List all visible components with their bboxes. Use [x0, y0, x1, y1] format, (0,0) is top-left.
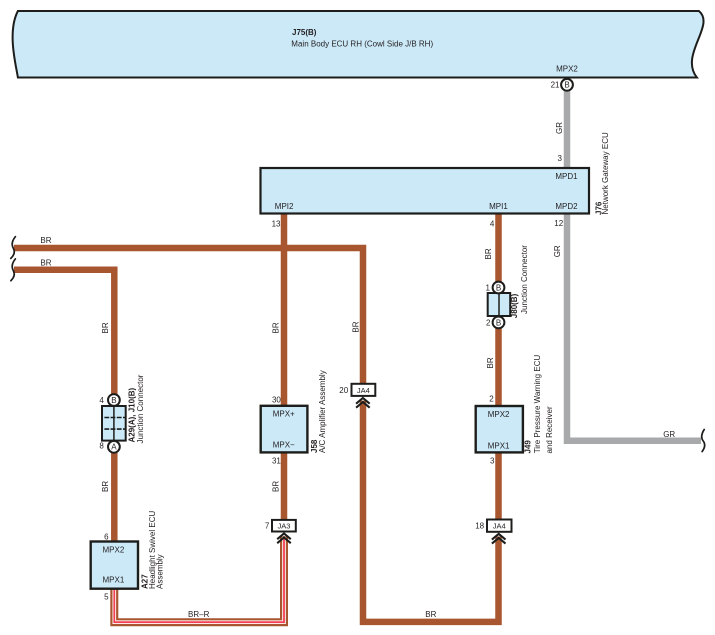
svg-text:4: 4	[490, 220, 495, 229]
svg-text:3: 3	[490, 457, 495, 466]
svg-text:6: 6	[104, 533, 109, 542]
svg-text:BR: BR	[40, 236, 51, 245]
svg-text:J49: J49	[524, 440, 533, 454]
svg-text:MPD2: MPD2	[555, 202, 578, 211]
svg-text:MPI2: MPI2	[275, 202, 294, 211]
svg-text:B: B	[111, 396, 116, 405]
svg-text:GR: GR	[553, 245, 562, 257]
svg-text:B: B	[496, 284, 501, 293]
svg-text:1: 1	[486, 284, 491, 293]
svg-text:MPX1: MPX1	[488, 442, 510, 451]
svg-text:JA4: JA4	[493, 522, 506, 531]
svg-text:A: A	[111, 443, 117, 452]
svg-text:B: B	[564, 81, 569, 90]
svg-text:BR–R: BR–R	[188, 610, 210, 619]
svg-text:MPX1: MPX1	[103, 576, 125, 585]
svg-text:BR: BR	[352, 321, 361, 332]
svg-text:MPX2: MPX2	[488, 410, 510, 419]
svg-text:MPX2: MPX2	[556, 64, 578, 73]
svg-text:MPX+: MPX+	[273, 410, 295, 419]
svg-text:BR: BR	[101, 322, 110, 333]
svg-text:A/C Amplifier Assembly: A/C Amplifier Assembly	[318, 370, 327, 453]
svg-text:GR: GR	[663, 430, 675, 439]
svg-text:Assembly: Assembly	[156, 554, 165, 589]
svg-text:GR: GR	[555, 122, 564, 134]
svg-text:20: 20	[339, 386, 348, 395]
svg-text:and Receiver: and Receiver	[545, 406, 554, 453]
svg-text:B: B	[496, 318, 501, 327]
svg-text:BR: BR	[425, 610, 436, 619]
svg-text:BR: BR	[101, 481, 110, 492]
svg-text:18: 18	[475, 522, 484, 531]
svg-text:J75(B): J75(B)	[292, 28, 317, 37]
svg-text:13: 13	[272, 219, 281, 228]
svg-text:Junction Connector: Junction Connector	[520, 245, 529, 314]
svg-text:JA3: JA3	[278, 522, 291, 531]
svg-text:MPX2: MPX2	[103, 546, 125, 555]
svg-text:Junction Connector: Junction Connector	[136, 374, 145, 443]
svg-text:J80(B): J80(B)	[510, 293, 519, 318]
svg-text:5: 5	[104, 592, 109, 601]
svg-text:BR: BR	[272, 322, 281, 333]
svg-text:BR: BR	[272, 481, 281, 492]
svg-text:Network Gateway ECU: Network Gateway ECU	[601, 132, 610, 214]
svg-text:2: 2	[486, 319, 491, 328]
svg-text:MPI1: MPI1	[489, 202, 508, 211]
svg-text:12: 12	[554, 219, 563, 228]
svg-text:MPD1: MPD1	[555, 172, 578, 181]
svg-text:3: 3	[558, 154, 563, 163]
svg-text:MPX−: MPX−	[273, 441, 295, 450]
svg-text:BR: BR	[486, 357, 495, 368]
svg-text:BR: BR	[40, 258, 51, 267]
svg-text:21: 21	[551, 81, 560, 90]
svg-text:31: 31	[272, 456, 281, 465]
svg-text:7: 7	[265, 522, 270, 531]
svg-text:2: 2	[489, 395, 494, 404]
svg-text:Tire Pressure Warning ECU: Tire Pressure Warning ECU	[533, 355, 542, 454]
svg-text:4: 4	[99, 396, 104, 405]
svg-text:30: 30	[272, 396, 281, 405]
svg-text:Main Body ECU RH (Cowl Side J/: Main Body ECU RH (Cowl Side J/B RH)	[291, 39, 433, 48]
svg-text:8: 8	[99, 442, 104, 451]
svg-text:BR: BR	[484, 248, 493, 259]
svg-text:JA4: JA4	[357, 386, 370, 395]
